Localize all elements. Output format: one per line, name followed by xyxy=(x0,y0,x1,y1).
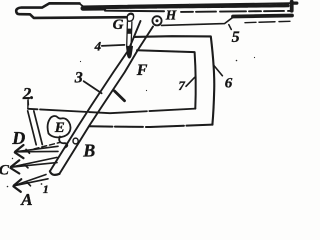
svg-text:3: 3 xyxy=(74,69,83,86)
svg-text:6: 6 xyxy=(225,75,233,91)
svg-text:4: 4 xyxy=(94,38,102,53)
svg-text:7: 7 xyxy=(178,78,185,93)
svg-text:F: F xyxy=(136,62,148,79)
svg-text:B: B xyxy=(82,141,95,161)
svg-text:D: D xyxy=(11,128,25,148)
svg-text:.: . xyxy=(30,84,34,103)
svg-text:H: H xyxy=(165,7,177,22)
svg-text:A: A xyxy=(20,190,32,207)
svg-text:G: G xyxy=(113,17,124,33)
svg-text:C: C xyxy=(0,163,10,179)
svg-text:1: 1 xyxy=(43,182,49,196)
svg-text:E: E xyxy=(54,120,65,136)
svg-text:5: 5 xyxy=(232,29,240,46)
